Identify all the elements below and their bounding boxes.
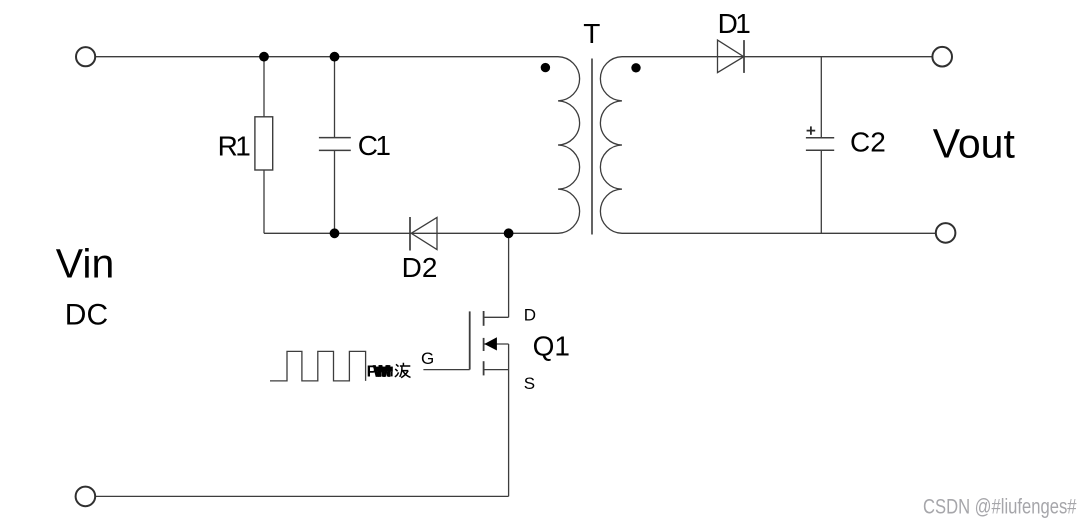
svg-text:C1: C1 (358, 130, 391, 161)
wire R1 bottom (263, 170, 265, 233)
capacitor C2 (806, 138, 834, 151)
wire bottom secondary (622, 232, 935, 234)
wire C1 top (334, 57, 336, 138)
node dot C1 bottom (330, 228, 340, 238)
svg-text:Vout: Vout (933, 120, 1016, 166)
mosfet Q1 gate bar (469, 311, 471, 369)
polarity dot primary (541, 63, 550, 72)
mosfet Q1 body arrow (484, 337, 497, 350)
svg-text:D1: D1 (718, 8, 751, 39)
pwm square wave (270, 351, 366, 381)
node dot C1 top (330, 52, 340, 62)
wire bottom return (96, 495, 509, 497)
CJK glyph bo (wave) (395, 363, 411, 378)
svg-text:DC: DC (65, 298, 108, 331)
wire gate lead (423, 369, 469, 371)
input terminal + (76, 47, 95, 66)
svg-text:T: T (583, 18, 600, 49)
label PWM wave (367, 364, 392, 381)
input terminal - (76, 487, 96, 507)
wire drain vertical upper (508, 233, 510, 317)
svg-text:S: S (524, 374, 535, 393)
svg-text:CSDN @#liufenges#: CSDN @#liufenges# (923, 496, 1077, 519)
wire C2 bottom (820, 150, 822, 233)
wire C1 bottom (334, 150, 336, 233)
wire source vertical (508, 344, 510, 496)
C2 plus sign (807, 126, 816, 134)
svg-text:R1: R1 (218, 131, 251, 162)
svg-text:Vin: Vin (56, 240, 115, 286)
wire C2 top (820, 57, 822, 138)
mosfet Q1 drain lead (484, 316, 509, 318)
svg-text:G: G (421, 349, 434, 368)
wire top secondary (622, 56, 932, 58)
mosfet Q1 channel middle (483, 338, 485, 351)
transformer core (591, 59, 593, 235)
svg-text:M: M (378, 364, 391, 381)
svg-text:D2: D2 (402, 252, 438, 283)
node dot drain junction (504, 228, 514, 238)
svg-text:D: D (524, 305, 536, 324)
diode D2 (410, 217, 437, 251)
wire bottom primary (264, 232, 558, 234)
resistor R1 (255, 117, 273, 170)
mosfet Q1 source lead (484, 369, 509, 371)
wire R1 top (263, 57, 265, 117)
mosfet Q1 body lead (484, 343, 508, 345)
mosfet Q1 channel bottom (483, 361, 485, 375)
wire top primary (96, 56, 558, 58)
svg-text:Q1: Q1 (533, 331, 570, 362)
mosfet Q1 channel top (483, 311, 485, 326)
svg-text:C2: C2 (850, 127, 886, 158)
node dot R1 top (259, 52, 269, 62)
output terminal - (936, 223, 956, 243)
transformer primary winding (558, 57, 580, 234)
output terminal + (932, 47, 952, 67)
diode D1 (718, 40, 745, 73)
polarity dot secondary (631, 63, 640, 72)
blob fill of overlapped WM (374, 367, 393, 377)
capacitor C1 (319, 138, 351, 151)
transformer secondary winding (600, 57, 622, 234)
